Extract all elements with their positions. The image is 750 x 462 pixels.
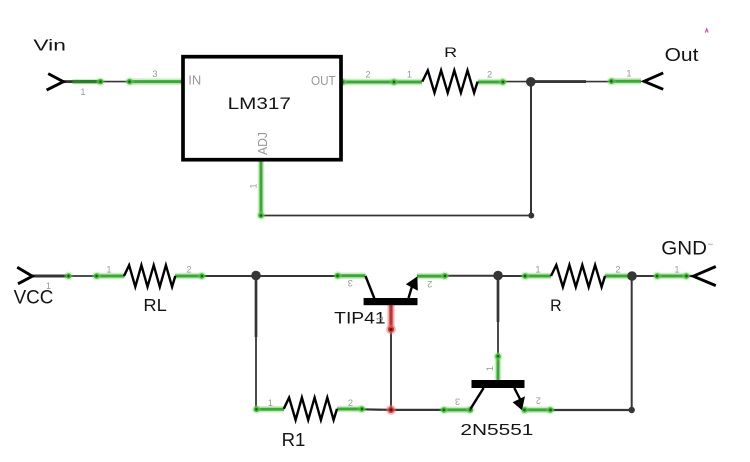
- svg-text:1: 1: [535, 264, 540, 274]
- svg-text:1: 1: [80, 87, 85, 97]
- svg-text:LM317: LM317: [228, 94, 291, 113]
- svg-text:2: 2: [348, 398, 353, 408]
- svg-text:3: 3: [152, 69, 157, 79]
- svg-text:OUT: OUT: [311, 74, 336, 88]
- svg-text:2: 2: [536, 395, 541, 405]
- svg-text:1: 1: [626, 69, 631, 79]
- svg-text:1: 1: [674, 264, 679, 274]
- svg-text:1: 1: [485, 366, 495, 371]
- svg-text:R: R: [550, 296, 562, 315]
- svg-text:Out: Out: [665, 45, 699, 65]
- svg-text:1: 1: [106, 264, 111, 274]
- svg-text:2: 2: [487, 70, 492, 80]
- svg-text:3: 3: [348, 278, 353, 288]
- svg-text:R1: R1: [282, 429, 306, 450]
- svg-text:IN: IN: [188, 74, 201, 88]
- svg-text:GND: GND: [661, 238, 707, 259]
- svg-text:2: 2: [186, 264, 191, 274]
- svg-text:RL: RL: [143, 295, 167, 315]
- svg-text:1: 1: [407, 70, 412, 80]
- svg-text:ADJ: ADJ: [256, 132, 270, 155]
- svg-text:2N5551: 2N5551: [460, 422, 533, 439]
- svg-text:3: 3: [455, 396, 460, 406]
- svg-text:1: 1: [248, 183, 258, 188]
- svg-text:1: 1: [268, 398, 273, 408]
- svg-text:1: 1: [46, 281, 51, 291]
- svg-text:Vin: Vin: [33, 38, 66, 55]
- svg-text:2: 2: [615, 264, 620, 274]
- svg-text:1: 1: [375, 316, 385, 321]
- svg-text:2: 2: [365, 70, 370, 80]
- svg-text:R: R: [444, 44, 457, 60]
- svg-text:2: 2: [427, 279, 432, 289]
